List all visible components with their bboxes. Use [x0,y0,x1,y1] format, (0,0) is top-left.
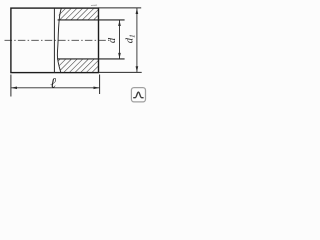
extension line left for L [10,75,12,97]
outer contour rectangle [11,8,99,73]
bore bottom line + extension for d [57,58,124,60]
background [0,0,150,105]
smudge above top line [91,4,97,7]
watermark bell curve [133,92,143,98]
dimension line L [11,87,99,90]
label d [107,37,118,43]
svg-text:d: d [107,37,118,43]
hatch bottom band (section wall) [58,59,99,72]
watermark logo box [131,88,145,102]
hatch top band (section wall) [58,9,98,20]
extension line right for L [99,75,101,95]
label d1 [124,34,136,43]
top extension line for d1 [98,7,141,9]
dimension line d1 [136,8,139,72]
svg-text:ℓ: ℓ [50,77,56,92]
centerline (dash-dot axis) [5,39,111,41]
bottom extension line for d1 [98,71,141,73]
dimension line d [118,20,121,59]
bore top line + extension for d [58,19,125,21]
svg-text:1: 1 [128,34,136,38]
wavy break line of local section [57,8,61,72]
inner vertical edge line [53,8,55,73]
